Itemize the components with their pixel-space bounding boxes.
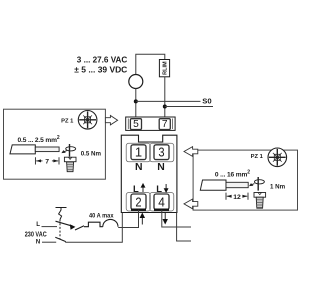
svg-text:7: 7	[45, 159, 49, 166]
svg-text:0.5 Nm: 0.5 Nm	[81, 150, 102, 157]
wire L feed to terminal 2	[118, 210, 138, 228]
pocket of terminal 2	[126, 193, 150, 212]
dimension 12 mm	[226, 193, 248, 200]
svg-text:5: 5	[133, 119, 139, 130]
terminal 5	[130, 119, 141, 130]
svg-text:1 Nm: 1 Nm	[270, 183, 286, 190]
torque screwdriver left	[61, 144, 75, 157]
pozidriv symbol right	[268, 148, 287, 167]
svg-text:7: 7	[162, 119, 168, 130]
switch linkage dashed	[59, 220, 61, 239]
wire S0 lower	[165, 106, 213, 108]
breaker x mark	[70, 225, 75, 230]
terminal 3	[154, 144, 169, 159]
arrow down glyph	[164, 184, 167, 192]
terminal 2	[131, 194, 146, 210]
wire load out from terminal 4	[162, 210, 191, 227]
pozidriv symbol left	[78, 111, 97, 130]
left inset box	[4, 109, 106, 179]
svg-text:12: 12	[233, 194, 241, 201]
svg-text:3: 3	[158, 144, 164, 159]
svg-text:L: L	[36, 221, 40, 228]
wire L mains	[42, 226, 58, 228]
switch blade L pole	[56, 221, 74, 226]
resistor RLIM	[159, 60, 169, 77]
arrow out of left inset	[105, 116, 117, 125]
cable insulation left	[10, 145, 35, 154]
svg-text:L: L	[133, 183, 139, 194]
dimension 7 mm	[35, 157, 59, 164]
svg-text:S0: S0	[202, 96, 211, 105]
svg-text:L: L	[156, 183, 162, 194]
pocket of terminal 1	[126, 143, 150, 162]
wire S0 upper	[136, 100, 201, 102]
svg-text:PZ 1: PZ 1	[61, 118, 74, 124]
terminal strip outline	[126, 117, 175, 130]
svg-text:RLIM: RLIM	[163, 61, 169, 75]
pocket of terminal 3	[150, 143, 174, 162]
strip inner line right	[172, 119, 174, 130]
arrow into device upper	[184, 147, 198, 157]
svg-text:N: N	[36, 239, 41, 246]
svg-text:3 ... 27.6 VAC: 3 ... 27.6 VAC	[77, 55, 128, 65]
wire N from mains up to body	[65, 213, 122, 243]
svg-text:230 VAC: 230 VAC	[25, 231, 47, 238]
svg-text:1: 1	[135, 144, 142, 159]
svg-text:40 A max: 40 A max	[89, 213, 114, 220]
wire source to terminal 5	[135, 89, 137, 119]
wire N mains	[42, 241, 56, 243]
svg-text:2: 2	[135, 195, 141, 210]
wire L after breaker contact	[75, 226, 84, 230]
node junction dot left	[134, 99, 138, 103]
svg-text:N: N	[135, 162, 143, 173]
screw icon right	[254, 193, 266, 209]
terminal 4	[154, 194, 169, 210]
switch actuator bar	[56, 208, 67, 220]
cable conductor right	[226, 182, 248, 187]
svg-text:PZ 1: PZ 1	[251, 154, 264, 160]
svg-text:N: N	[157, 162, 165, 173]
source G1 circle	[129, 75, 143, 89]
cable insulation right	[200, 180, 226, 190]
device body outline	[121, 135, 177, 212]
wire RLIM to terminal 7	[164, 77, 166, 119]
arrow up glyph	[141, 184, 144, 192]
svg-text:0.5 ... 2.5 mm2: 0.5 ... 2.5 mm2	[18, 135, 60, 144]
terminal 7	[159, 119, 170, 130]
arrow annotation up at terminal 2	[140, 214, 144, 225]
switch blade N pole	[55, 237, 66, 241]
pocket of terminal 4	[150, 193, 174, 212]
screw icon left	[64, 157, 76, 172]
wire N out right	[177, 213, 191, 242]
cable conductor left	[35, 147, 59, 152]
svg-text:4: 4	[158, 195, 165, 210]
breaker arc hump	[103, 219, 118, 226]
arrow annotation down at terminal 4	[163, 213, 167, 224]
wire top U from source to RLIM	[136, 54, 165, 74]
strip inner line left	[127, 119, 129, 130]
arrow into device lower	[184, 199, 198, 209]
thermal release symbol	[84, 222, 103, 227]
svg-text:± 5 ... 39 VDC: ± 5 ... 39 VDC	[74, 65, 128, 75]
terminal 1	[131, 144, 146, 159]
right inset box	[193, 150, 297, 210]
svg-text:0 ... 16 mm2: 0 ... 16 mm2	[215, 170, 250, 179]
node junction dot right	[163, 105, 167, 109]
torque screwdriver right	[249, 177, 264, 191]
